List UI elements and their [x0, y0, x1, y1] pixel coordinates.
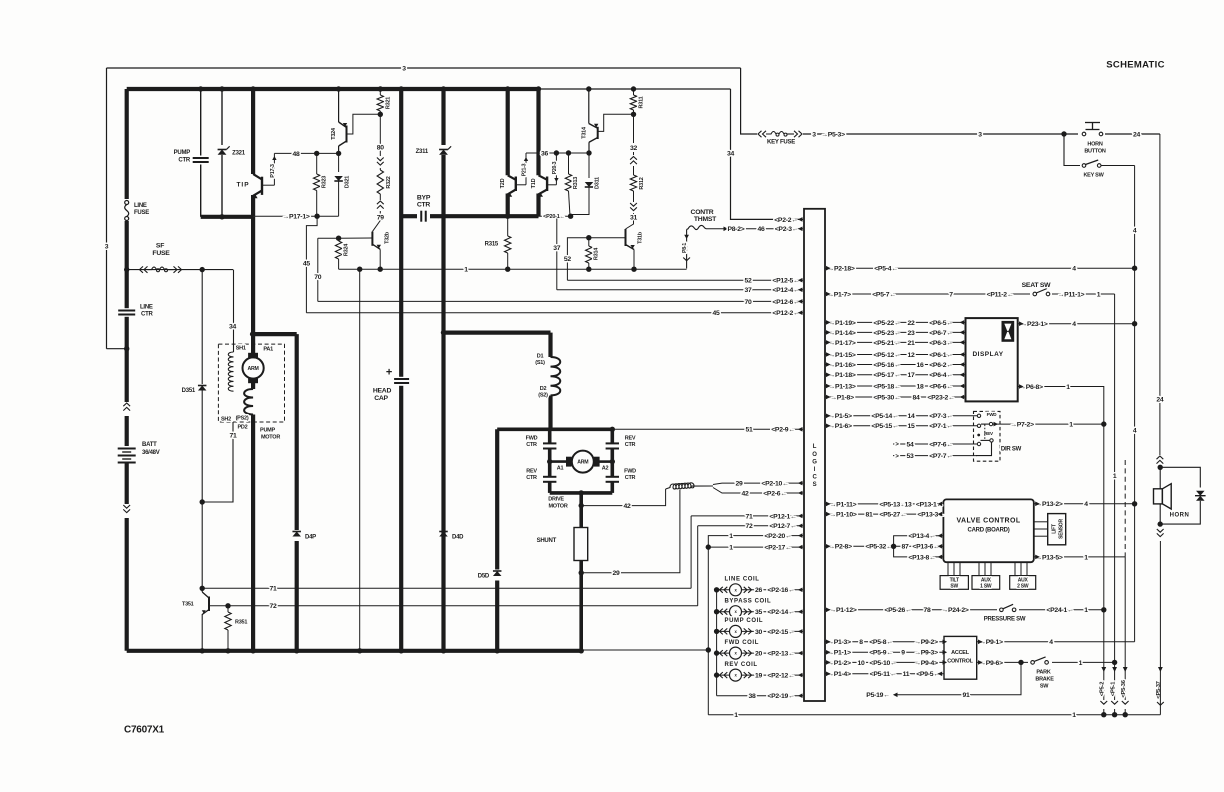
resistor R311 [633, 89, 635, 95]
shunt SHUNT box [574, 528, 588, 561]
wire thick row to T1D P20-1 [444, 214, 539, 218]
svg-text:4: 4 [1133, 227, 1137, 234]
svg-text:<P9-5←: <P9-5← [916, 671, 940, 678]
wire bridge bottom DRIVE MOTOR [550, 491, 613, 495]
svg-text:72: 72 [269, 603, 277, 610]
svg-text:T31b: T31b [637, 231, 643, 244]
motor ARM pump [251, 334, 255, 353]
svg-text:→P2-8>: →P2-8> [828, 544, 852, 551]
svg-text:CARD (BOARD): CARD (BOARD) [968, 528, 1010, 534]
svg-text:→P1-2>: →P1-2> [827, 660, 851, 667]
svg-text:<P5-14←: <P5-14← [871, 413, 898, 420]
wire P1-10 P13-3 row [825, 513, 943, 515]
wire 71 long line [202, 587, 691, 589]
wire T314 base to R311 [598, 114, 634, 131]
svg-text:→P17-1>: →P17-1> [282, 214, 309, 221]
svg-text:34: 34 [229, 323, 237, 330]
wire 29 to curly [581, 490, 680, 573]
svg-text:→P7-2>: →P7-2> [1010, 422, 1034, 429]
svg-text:→P1-5>: →P1-5> [828, 413, 852, 420]
connector P5-1 column [1112, 667, 1117, 672]
wire 71 from PD2 [202, 422, 233, 502]
svg-text:<P5-32←: <P5-32← [865, 544, 892, 551]
svg-text:<P6-3←: <P6-3← [929, 340, 953, 347]
svg-text:70: 70 [314, 274, 322, 281]
wire 45 loop [306, 216, 317, 313]
svg-text:<P2-2←: <P2-2← [774, 217, 798, 224]
icon hourglass [1002, 321, 1015, 342]
fuse SF FUSE [127, 269, 233, 271]
svg-text:FWD: FWD [526, 435, 538, 441]
svg-text:MOTOR: MOTOR [261, 434, 280, 440]
connector arrowheads logic rows [826, 266, 831, 271]
svg-text:CAP: CAP [374, 395, 388, 402]
svg-text:<P12-7←: <P12-7← [769, 523, 796, 530]
svg-text:<P23-2←: <P23-2← [927, 394, 954, 401]
svg-text:BRAKE: BRAKE [1035, 676, 1054, 682]
svg-text:→P1-18>: →P1-18> [828, 372, 855, 379]
svg-text:CTR: CTR [526, 442, 537, 448]
svg-text:1: 1 [729, 533, 733, 540]
svg-text:LINE COIL: LINE COIL [725, 576, 760, 582]
svg-text:11: 11 [903, 671, 910, 678]
wire P1-19 row [825, 321, 966, 323]
wire P1-17 row [825, 341, 966, 343]
svg-text:T324: T324 [331, 127, 337, 140]
wire P1-6 P7-1 row [825, 425, 977, 427]
svg-text:71: 71 [229, 432, 237, 439]
svg-text:SHUNT: SHUNT [537, 538, 557, 544]
svg-text:<P5-17←: <P5-17← [873, 372, 900, 379]
svg-text:<P5-8←: <P5-8← [869, 639, 893, 646]
svg-text:71: 71 [269, 586, 277, 593]
svg-text:FWD: FWD [624, 468, 636, 474]
svg-text:<P5-37: <P5-37 [1156, 681, 1162, 698]
svg-text:17: 17 [907, 372, 915, 379]
svg-text:→P5-3>: →P5-3> [821, 131, 845, 138]
svg-text:DIR SW: DIR SW [1001, 447, 1022, 453]
wire P6-8 row 1 [1018, 387, 1104, 715]
svg-text:S: S [813, 482, 817, 488]
pump motor dashed box PA1 [218, 344, 284, 422]
svg-text:P8-1: P8-1 [682, 243, 688, 253]
svg-text:CTR: CTR [141, 312, 153, 318]
wire bridge left column D5D [495, 429, 499, 651]
speaker HORN [1159, 467, 1161, 489]
svg-text:→P13-5>: →P13-5> [1035, 554, 1062, 561]
switch AUX 1 SW box [972, 576, 1000, 590]
wire pump arm column [251, 217, 255, 334]
wire 70 line to P12-6 [318, 300, 803, 302]
svg-text:MOTOR: MOTOR [548, 503, 567, 509]
svg-text:BYPASS COIL: BYPASS COIL [725, 598, 772, 604]
svg-text:Z321: Z321 [232, 151, 246, 157]
svg-text:<P2-12←: <P2-12← [767, 673, 794, 680]
svg-text:45: 45 [712, 310, 720, 317]
capacitor HEAD CAP [394, 377, 409, 386]
svg-text:46: 46 [757, 226, 765, 233]
svg-text:<P5-13←: <P5-13← [879, 501, 906, 508]
svg-text:D5D: D5D [478, 574, 490, 580]
svg-text:D4D: D4D [452, 535, 464, 541]
wire P1-15 row [825, 354, 966, 356]
winding SH1 [228, 352, 233, 391]
svg-text:26: 26 [755, 587, 763, 594]
wire 38 row P2-19 [717, 695, 803, 697]
svg-text:<P6-2←: <P6-2← [929, 362, 953, 369]
svg-text:<P5-15←: <P5-15← [871, 423, 898, 430]
svg-text:<P2-20←: <P2-20← [764, 533, 791, 540]
svg-text:P20-3: P20-3 [552, 161, 558, 174]
transistor T2D [506, 89, 510, 175]
svg-text:→P1-3>: →P1-3> [827, 639, 851, 646]
svg-text:R322: R322 [386, 176, 392, 188]
svg-text:ACCEL: ACCEL [951, 650, 970, 656]
svg-text:<P11-2←: <P11-2← [987, 291, 1014, 298]
wire P1-4 P9-5 row [825, 673, 944, 675]
svg-text:<P2-13←: <P2-13← [767, 651, 794, 658]
wire P13-8 bracket row [894, 546, 944, 557]
svg-text:<P5-27←: <P5-27← [879, 512, 906, 519]
wire P1-8 row [825, 396, 966, 398]
svg-text:48: 48 [292, 151, 300, 158]
svg-text:29: 29 [612, 570, 620, 577]
svg-text:CTR: CTR [625, 475, 636, 481]
svg-text:14: 14 [907, 413, 915, 420]
zener Z321 [221, 89, 223, 145]
svg-text:16: 16 [916, 362, 924, 369]
wire 37 drop [556, 219, 558, 290]
svg-text:D2: D2 [540, 386, 547, 392]
capacitor LINE CTR [117, 308, 136, 317]
svg-text:18: 18 [916, 383, 924, 390]
resistor R313 [568, 153, 570, 174]
wire P1-1 P9-3 row [825, 651, 944, 653]
svg-text:Z311: Z311 [416, 149, 429, 155]
svg-text:1: 1 [1066, 384, 1070, 391]
svg-text:22: 22 [907, 320, 915, 327]
wire P17-1 row [201, 215, 253, 219]
svg-text:KEY SW: KEY SW [1083, 172, 1104, 178]
switch TILT SW box [940, 576, 968, 590]
transistor T324 [338, 89, 340, 122]
wire 45 line to P12-2 [306, 312, 803, 314]
svg-text:→P13-2>: →P13-2> [1035, 501, 1062, 508]
svg-text:71: 71 [745, 513, 753, 520]
svg-text:SF: SF [156, 242, 164, 249]
svg-text:PUMP: PUMP [260, 427, 275, 433]
connector P5-36 column [1124, 460, 1126, 557]
svg-text:<P13-1←: <P13-1← [916, 501, 943, 508]
svg-text:38: 38 [748, 693, 756, 700]
svg-text:<P5-26←: <P5-26← [884, 607, 911, 614]
battery BATT 36/48V [116, 446, 137, 463]
resistor R323 [316, 153, 318, 174]
wire P1-2 P9-4 row [825, 661, 944, 663]
svg-text:<P12-2←: <P12-2← [772, 310, 799, 317]
svg-text:PUMP: PUMP [174, 150, 191, 156]
svg-text:T1D: T1D [531, 178, 537, 188]
switch DIR SW dashed box [974, 411, 1001, 461]
svg-text:→P1-11>: →P1-11> [830, 501, 857, 508]
wire outer border 3 [107, 67, 741, 69]
switch PRESSURE SW row [825, 609, 1104, 611]
svg-text:<P2-14←: <P2-14← [767, 609, 794, 616]
svg-text:70: 70 [744, 299, 752, 306]
svg-text:(S2): (S2) [538, 392, 548, 398]
svg-text:1: 1 [1113, 473, 1117, 480]
wire P13-5 row 1 [1034, 556, 1125, 558]
svg-text:<P5-12←: <P5-12← [873, 352, 900, 359]
wire coil common vertical [716, 590, 718, 696]
svg-text:PUMP COIL: PUMP COIL [725, 618, 764, 624]
svg-text:<P5-21←: <P5-21← [873, 340, 900, 347]
resistor R324 [336, 236, 341, 241]
svg-text:<P20-1←: <P20-1← [543, 214, 565, 220]
svg-text:<P6-6←: <P6-6← [929, 383, 953, 390]
svg-text:<P7-7←: <P7-7← [929, 453, 953, 460]
svg-text:10: 10 [857, 660, 865, 667]
coil D1 S1 D2 S2 [548, 333, 552, 357]
logic card LOGICS [804, 209, 825, 701]
svg-text:1 SW: 1 SW [980, 583, 992, 589]
contactor FWD CTR top-left [548, 429, 552, 443]
wire drive loop top [444, 331, 551, 335]
wire 52 loop [567, 238, 588, 281]
svg-text:→P1-1>: →P1-1> [827, 650, 851, 657]
svg-text:ARM: ARM [577, 459, 588, 465]
wire 42 to P2-6 [713, 488, 803, 494]
svg-text:13: 13 [904, 501, 912, 508]
wire BYP column [399, 89, 403, 651]
resistor R312 chain 32 31 [633, 114, 635, 143]
wire P1-18 row [825, 374, 966, 376]
wire 53 P7-7 row [893, 455, 977, 457]
wire 48 node [274, 152, 338, 154]
svg-text:<P5-30←: <P5-30← [873, 394, 900, 401]
svg-text:HEAD: HEAD [373, 387, 392, 394]
svg-text:R311: R311 [638, 96, 644, 108]
wire P1-16 row [825, 364, 966, 366]
wire 72 long line [228, 605, 698, 607]
svg-text:→P1-19>: →P1-19> [828, 320, 855, 327]
svg-text:8: 8 [859, 639, 863, 646]
svg-text:1: 1 [1079, 660, 1083, 667]
wire lift sensor links [1034, 521, 1048, 523]
svg-text:<P2-17←: <P2-17← [764, 545, 791, 552]
svg-text:23: 23 [907, 330, 915, 337]
svg-text:<P24-1←: <P24-1← [1046, 607, 1073, 614]
svg-text:FUSE: FUSE [152, 250, 170, 257]
svg-text:A1: A1 [557, 465, 564, 471]
svg-text:DRIVE: DRIVE [548, 496, 564, 502]
svg-text:T32b: T32b [384, 231, 390, 244]
svg-text:30: 30 [755, 629, 763, 636]
svg-text:87: 87 [901, 544, 909, 551]
svg-text:37: 37 [553, 245, 561, 252]
connector P5-2 column [1101, 667, 1106, 672]
svg-text:79: 79 [377, 214, 385, 221]
svg-text:BATT: BATT [142, 442, 157, 448]
svg-text:29: 29 [735, 481, 743, 488]
resistor R321 [379, 89, 381, 95]
fuse LINE FUSE [121, 199, 132, 221]
svg-text:→P9-3>: →P9-3> [914, 650, 938, 657]
svg-text:<P5-4←: <P5-4← [874, 266, 898, 273]
svg-text:35: 35 [755, 609, 763, 616]
svg-text:4: 4 [1133, 427, 1137, 434]
wire 29 to P2-10 [713, 483, 803, 484]
svg-text:KEY FUSE: KEY FUSE [767, 140, 795, 146]
svg-text:<P13-4←: <P13-4← [908, 533, 935, 540]
svg-text:→P1-8>: →P1-8> [830, 394, 854, 401]
svg-text:<P13-8←: <P13-8← [908, 554, 935, 561]
wire P1-3 P9-2 row [825, 641, 944, 643]
svg-text:24: 24 [1133, 131, 1141, 138]
wire TIP base P17-3 [262, 184, 274, 186]
transistor T1D [536, 89, 540, 175]
svg-text:BYP: BYP [417, 194, 431, 201]
svg-text:<P5-18←: <P5-18← [873, 383, 900, 390]
diode D311 [588, 153, 590, 178]
svg-text:72: 72 [745, 523, 753, 530]
svg-text:→P24-2>: →P24-2> [941, 607, 968, 614]
wire horn bottom chevrons [1155, 528, 1165, 541]
wire bottom 1 line [708, 714, 1160, 716]
svg-text:3: 3 [402, 65, 406, 72]
svg-text:21: 21 [907, 340, 915, 347]
switch AUX 2 SW box [1010, 576, 1036, 590]
switch KEY SW [1064, 134, 1080, 166]
wire P1-13 row [825, 385, 966, 387]
svg-text:37: 37 [744, 287, 752, 294]
wire 34 drop to P2-2 [731, 89, 804, 219]
svg-text:SEAT SW: SEAT SW [1022, 282, 1052, 289]
svg-text:P17-3: P17-3 [270, 164, 276, 178]
svg-text:→P1-17>: →P1-17> [828, 340, 855, 347]
resistor R314 [586, 235, 591, 240]
svg-text:P5-19←: P5-19← [866, 692, 889, 699]
fuse KEY FUSE [741, 68, 757, 134]
wire P2-20 row [708, 536, 803, 548]
svg-text:34: 34 [727, 150, 735, 157]
svg-text:→P1-10>: →P1-10> [829, 512, 856, 519]
svg-text:<P12-4←: <P12-4← [772, 287, 799, 294]
wire T1D base P20-3 [547, 184, 556, 186]
svg-text:→P9-6>: →P9-6> [979, 660, 1003, 667]
svg-text:A2: A2 [602, 465, 609, 471]
svg-text:<P12-5←: <P12-5← [772, 278, 799, 285]
lift sensor box [1048, 514, 1066, 545]
svg-text:CTR: CTR [625, 442, 636, 448]
svg-text:D321: D321 [344, 176, 350, 188]
wire P9-1 row 4 [977, 641, 1135, 643]
svg-text:>: > [895, 442, 899, 448]
svg-text:→P1-16>: →P1-16> [828, 362, 855, 369]
transistor T32b [371, 232, 373, 246]
svg-text:→P1-13>: →P1-13> [828, 383, 855, 390]
svg-text:91: 91 [962, 692, 970, 699]
svg-text:81: 81 [865, 512, 873, 519]
svg-text:SENSOR: SENSOR [1058, 519, 1064, 539]
wire shunt column [579, 493, 583, 528]
svg-text:D4P: D4P [305, 535, 316, 541]
svg-text:(PS2): (PS2) [236, 415, 249, 421]
transistor T351 [201, 588, 203, 592]
svg-text:O: O [812, 452, 817, 458]
svg-text:CTR: CTR [417, 201, 431, 208]
wire left battery column [125, 89, 129, 651]
svg-text:<P7-3←: <P7-3← [929, 413, 953, 420]
svg-text:FWD COIL: FWD COIL [725, 640, 759, 646]
wire 1 column to bottom [707, 547, 709, 715]
svg-text:→P1-15>: →P1-15> [828, 352, 855, 359]
svg-text:12: 12 [907, 352, 915, 359]
svg-text:→P1-6>: →P1-6> [828, 423, 852, 430]
svg-text:PARK: PARK [1036, 669, 1050, 675]
svg-text:<P5-16←: <P5-16← [873, 362, 900, 369]
svg-text:→P1-14>: →P1-14> [828, 330, 855, 337]
contactor REV CTR top-right [610, 429, 614, 443]
svg-text:LIFT: LIFT [1051, 524, 1057, 534]
svg-text:<P2-19←: <P2-19← [767, 693, 794, 700]
transistor T314 [588, 89, 590, 124]
wire 1 line mid [339, 268, 687, 270]
svg-text:G: G [812, 459, 817, 465]
svg-text:→P6-8>: →P6-8> [1019, 384, 1043, 391]
svg-text:<P6-1←: <P6-1← [929, 352, 953, 359]
svg-text:<P7-1←: <P7-1← [929, 423, 953, 430]
svg-text:20: 20 [755, 651, 763, 658]
wire P7-2 row 1 [993, 423, 1104, 425]
svg-text:FWD: FWD [987, 412, 998, 417]
svg-text:PRESSURE SW: PRESSURE SW [984, 617, 1026, 623]
svg-text:PD2: PD2 [238, 424, 248, 430]
svg-text:(S1): (S1) [535, 360, 545, 366]
svg-text:>: > [895, 454, 899, 460]
svg-text:<P2-15←: <P2-15← [767, 629, 794, 636]
diode D4D [438, 530, 449, 541]
wire 52 line to P12-5 [567, 279, 803, 281]
resistor R315 [507, 216, 509, 236]
svg-text:<P5-22←: <P5-22← [873, 320, 900, 327]
coil PS2 series winding [251, 383, 255, 389]
svg-text:<P5-7←: <P5-7← [872, 291, 896, 298]
svg-text:4: 4 [1072, 321, 1076, 328]
svg-text:→P11-1>: →P11-1> [1058, 291, 1085, 298]
valve control card box [943, 499, 1033, 562]
svg-text:<P5-10←: <P5-10← [869, 660, 896, 667]
diode pair horn suppressor [1196, 491, 1205, 496]
svg-text:2 SW: 2 SW [1017, 583, 1029, 589]
svg-text:<P5-1: <P5-1 [1110, 681, 1116, 696]
display DISPLAY box [966, 318, 1018, 401]
svg-text:9: 9 [901, 650, 905, 657]
svg-text:R321: R321 [385, 97, 391, 109]
svg-text:+: + [386, 366, 392, 378]
svg-text:4: 4 [1084, 501, 1088, 508]
wire 72 riser to P12-7 [697, 526, 699, 606]
svg-text:R312: R312 [639, 177, 645, 189]
wire 54 P7-6 row [893, 443, 977, 445]
accel control box [944, 636, 977, 679]
svg-text:→P1-12>: →P1-12> [829, 607, 856, 614]
wire P1-11 P13-1 row [825, 503, 943, 505]
svg-text:51: 51 [745, 427, 753, 434]
wire thin column x360 [359, 269, 361, 651]
svg-text:<P6-5←: <P6-5← [929, 320, 953, 327]
svg-text:78: 78 [923, 607, 931, 614]
